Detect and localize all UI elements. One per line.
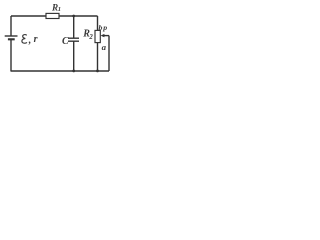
svg-text:b: b	[99, 23, 103, 32]
svg-text:a: a	[102, 42, 107, 52]
svg-text:2: 2	[88, 34, 93, 41]
svg-text:1: 1	[58, 6, 61, 13]
svg-text:p: p	[102, 23, 107, 32]
svg-text:r: r	[34, 34, 38, 45]
svg-text:C: C	[62, 36, 69, 47]
svg-text:,: ,	[28, 35, 32, 46]
